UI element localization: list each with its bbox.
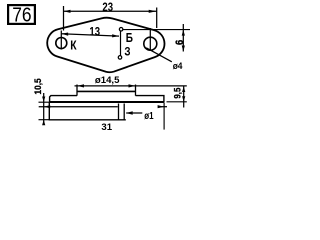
svg-text:ø1: ø1 — [144, 110, 153, 121]
svg-text:31: 31 — [101, 122, 112, 133]
svg-text:9,5: 9,5 — [172, 87, 183, 98]
svg-text:6: 6 — [175, 40, 187, 45]
svg-text:З: З — [124, 46, 130, 59]
svg-text:К: К — [70, 38, 77, 52]
svg-text:13: 13 — [89, 26, 100, 39]
svg-text:76: 76 — [12, 3, 31, 25]
svg-text:ø14,5: ø14,5 — [95, 75, 120, 86]
svg-text:10,5: 10,5 — [33, 78, 44, 94]
svg-text:Б: Б — [126, 32, 133, 45]
svg-text:ø4: ø4 — [173, 61, 183, 72]
svg-text:23: 23 — [102, 1, 113, 14]
